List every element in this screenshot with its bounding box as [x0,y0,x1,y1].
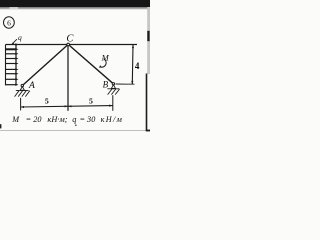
svg-text:5: 5 [45,97,49,106]
dim 4 top arrowhead [132,45,134,48]
dim arrowheads bottom [21,105,113,109]
support A triangle [20,87,24,91]
support B ground line [107,88,119,90]
support A hatching [15,91,30,97]
node A hinge circle [21,84,23,86]
bottom faint rule [0,129,146,132]
moment M arc [100,59,106,68]
bottom dimension line [21,106,113,107]
distributed load q : right envelope line [15,45,17,86]
svg-text:C: C [66,34,74,45]
right extension line [112,95,114,111]
circled problem number 6 [3,17,14,28]
moment arrowhead [99,65,102,68]
load arrowheads [15,43,18,86]
member AC [22,44,68,85]
support B triangle [111,85,115,89]
right page-edge gray band [147,7,150,74]
svg-text:M: M [101,53,110,63]
right border lower black line [146,74,148,132]
svg-text:B: B [103,80,109,90]
support B hatching [108,89,120,95]
dimension 4: vertical line [131,45,134,84]
load arrows (rungs) [6,49,16,84]
dim 4 bottom arrowhead [131,81,133,84]
distributed load q : left envelope line [5,45,7,86]
node C hinge circle [67,43,70,46]
node B hinge circle [112,83,114,85]
left extension line [20,98,22,111]
svg-text:A: A [28,81,35,91]
right border black dash [147,31,149,41]
top black band [0,0,150,7]
extension line from B [116,83,135,85]
q label leader arrow [12,39,17,44]
stray speck [75,125,76,126]
left edge stray mark [0,124,1,128]
bottom right corner rule [146,130,150,132]
svg-text:5: 5 [89,96,93,105]
support A ground line [16,90,29,92]
member CB [68,44,113,83]
center vertical line from C to bottom dimension [67,45,69,111]
svg-text:q: q [18,33,22,42]
svg-text:4: 4 [135,61,140,71]
svg-text:M=20кН·м;q=30кН/м: M=20кН·м;q=30кН/м [11,115,123,124]
top horizontal line (member / extension to dimension) [6,44,138,46]
svg-text:6: 6 [7,18,11,27]
